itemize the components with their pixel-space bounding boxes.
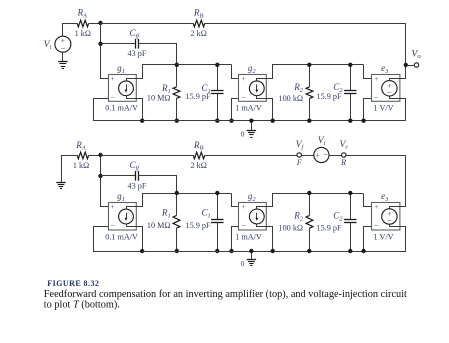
svg-text:+: + <box>374 74 378 83</box>
svg-text:15.9 pF: 15.9 pF <box>185 221 210 230</box>
svg-text:43 pF: 43 pF <box>128 49 147 58</box>
label Vt <box>318 135 326 147</box>
junction node A / Cff tap <box>98 42 102 46</box>
svg-text:2 kΩ: 2 kΩ <box>191 29 207 38</box>
wire Vr to e3 output corner (bottom) <box>347 156 406 207</box>
junction Cff tap (bottom) <box>98 174 102 178</box>
wire g1 - input to bottom rail (bottom) <box>94 227 143 252</box>
node A junction (top rail) <box>98 21 102 25</box>
label 100 kOhm (top) <box>278 94 303 103</box>
label C2 (top) <box>333 82 343 94</box>
wire node B to C1 (bottom) <box>177 193 232 195</box>
capacitor C1 (top) <box>211 65 223 121</box>
wire Vt to Vr terminal <box>329 155 342 157</box>
svg-text:−: − <box>323 150 328 159</box>
junction R2 bottom (bottom) <box>307 249 311 253</box>
label 15.9 pF C2 (top) <box>316 92 341 101</box>
junction R1 bottom (top) <box>175 119 179 123</box>
ground 0 (top circuit) <box>247 121 256 138</box>
voltage source V1 (Vi) <box>44 36 71 53</box>
wire g1 output top to node B (bottom) <box>136 194 177 207</box>
wire e3 output bottom to rail (bottom) <box>401 227 406 252</box>
controlled source g2 (top) <box>235 63 266 113</box>
label Vo <box>411 48 421 60</box>
caption line 2 <box>44 299 120 310</box>
label 0 (top) <box>241 130 245 139</box>
resistor R2 (bottom) <box>306 193 313 251</box>
wire g1 output bottom to rail (bottom) <box>136 227 143 252</box>
svg-text:−: − <box>61 44 66 53</box>
svg-text:−: − <box>387 216 392 225</box>
svg-text:15.9 pF: 15.9 pF <box>185 92 210 101</box>
junction e3 - input on rail (bottom) <box>361 249 365 253</box>
label C1 (bottom) <box>202 208 211 220</box>
svg-text:100 kΩ: 100 kΩ <box>278 223 303 232</box>
wire e3 - input to rail <box>364 99 372 121</box>
wire Vi top to RA <box>63 24 78 37</box>
label R1 (top) <box>161 83 171 95</box>
wire g2 output top to node C <box>267 65 364 79</box>
caption line 1 <box>44 289 407 300</box>
svg-text:−: − <box>374 222 379 231</box>
wire e3 output bottom to rail <box>401 99 406 121</box>
resistor RB (bottom) <box>193 152 204 159</box>
label 2 kOhm (top) <box>191 29 207 38</box>
svg-text:0: 0 <box>241 259 245 268</box>
svg-text:R: R <box>340 158 346 167</box>
label RA (bottom) <box>75 140 86 152</box>
junction g1 output on bottom rail <box>140 119 144 123</box>
junction g2 output on rail <box>271 119 275 123</box>
label 15.9 pF C1 (bottom) <box>185 221 210 230</box>
junction C2 bottom (bottom) <box>348 249 352 253</box>
junction R2 top (top) <box>307 63 311 67</box>
junction C2 top (top) <box>348 63 352 67</box>
ground below Vi <box>58 62 67 69</box>
label 10 MOhm (top) <box>147 94 171 103</box>
label Vf <box>296 139 305 151</box>
wire g1 output top to node B <box>136 65 177 79</box>
wire node B to C1 <box>177 64 232 66</box>
wire g1 - input to bottom rail <box>94 99 143 121</box>
svg-text:15.9 pF: 15.9 pF <box>316 223 341 232</box>
label 0 (bottom) <box>241 259 245 268</box>
junction g2 - input on rail (bottom) <box>229 249 233 253</box>
svg-text:1 kΩ: 1 kΩ <box>75 29 91 38</box>
label F <box>296 158 303 167</box>
wire node C down to e3 + input (bottom) <box>364 194 372 207</box>
wire e3 output top (bottom) <box>400 206 406 208</box>
svg-text:100 kΩ: 100 kΩ <box>278 94 303 103</box>
label 15.9 pF C1 (top) <box>185 92 210 101</box>
wire node C down to e3 + input <box>364 65 372 79</box>
resistor RA (top) <box>77 20 88 27</box>
wire g2 output top to node C (bottom) <box>267 194 364 207</box>
wire RB to Vf terminal <box>205 155 297 157</box>
label 100 kOhm (bottom) <box>278 223 303 232</box>
wire Vf to Vt source <box>302 155 314 157</box>
controlled source e3 (top) <box>372 63 401 113</box>
svg-text:+: + <box>110 202 114 211</box>
wire RB to output corner <box>205 24 406 66</box>
wire e3 - input to rail (bottom) <box>364 227 372 252</box>
label C1 (top) <box>202 83 211 95</box>
junction e3 - input on rail <box>361 119 365 123</box>
wire Cff right segment down to node B <box>139 44 177 65</box>
bottom rail (top circuit) <box>142 120 406 122</box>
wire node A down to g1 + input <box>101 24 109 79</box>
svg-text:10 MΩ: 10 MΩ <box>147 221 171 230</box>
label 43 pF (top) <box>128 49 147 58</box>
voltage source Vt <box>314 147 329 162</box>
label 1 kOhm (top) <box>75 29 91 38</box>
label 10 MOhm (bottom) <box>147 221 171 230</box>
capacitor C2 (top) <box>344 65 356 121</box>
bottom rail (bottom circuit) <box>142 251 406 253</box>
junction C2 bottom (top) <box>348 119 352 123</box>
label R2 (top) <box>293 82 304 94</box>
terminal Vo <box>414 63 418 67</box>
ground left (bottom) <box>56 183 65 189</box>
terminal Vr <box>342 153 346 157</box>
ground 0 (bottom circuit) <box>247 251 256 266</box>
svg-text:+: + <box>315 150 319 159</box>
svg-text:1 mA/V: 1 mA/V <box>235 104 262 113</box>
svg-text:1 mA/V: 1 mA/V <box>235 232 262 241</box>
svg-text:FIGURE 8.32: FIGURE 8.32 <box>47 279 99 288</box>
junction R1 top (bottom) <box>175 191 179 195</box>
label RB (top) <box>193 8 204 20</box>
junction R1 top (top) <box>175 63 179 67</box>
svg-text:to plot T (bottom).: to plot T (bottom). <box>44 299 120 310</box>
wire left rail to ground (bottom) <box>62 156 78 183</box>
svg-text:43 pF: 43 pF <box>128 181 147 190</box>
svg-text:15.9 pF: 15.9 pF <box>316 92 341 101</box>
wire node B down to g2 + input (bottom) <box>232 194 239 207</box>
junction R2 bottom (top) <box>307 119 311 123</box>
wire g1 output bottom to rail <box>136 99 143 121</box>
svg-text:+: + <box>374 202 378 211</box>
wire RA to node A (bottom) <box>89 155 101 157</box>
wire Vi bottom to ground <box>62 52 64 62</box>
junction ground stem (top) <box>249 119 253 123</box>
label RA (top) <box>76 8 87 20</box>
label Cff (top) <box>130 28 141 40</box>
junction C1 top (bottom) <box>215 191 219 195</box>
svg-text:−: − <box>110 93 115 102</box>
junction C2 top (bottom) <box>348 191 352 195</box>
wire RA to node A <box>89 23 101 25</box>
junction Vo node <box>404 63 408 67</box>
wire Cff left segment <box>101 43 136 45</box>
controlled source g1 (top) <box>105 63 138 113</box>
capacitor Cff (top) <box>136 39 139 49</box>
resistor R2 (top) <box>306 65 313 121</box>
svg-text:−: − <box>374 93 379 102</box>
label 43 pF (bottom) <box>128 181 147 190</box>
junction C1 top (top) <box>215 63 219 67</box>
resistor RA (bottom) <box>77 152 88 159</box>
svg-text:2 kΩ: 2 kΩ <box>191 161 207 170</box>
wire node A down to g1 + input (bottom) <box>101 156 109 207</box>
wire g2 - input to bottom rail <box>232 99 239 121</box>
wire Cff right segment down to node B (bottom) <box>139 176 177 194</box>
svg-text:+: + <box>241 74 245 83</box>
junction R1 bottom (bottom) <box>175 249 179 253</box>
wire g2 - input to rail (bottom) <box>232 227 239 252</box>
label R1 (bottom) <box>161 208 171 220</box>
svg-text:Feedforward compensation for a: Feedforward compensation for an invertin… <box>44 289 407 300</box>
wire g2 output bottom to rail (bottom) <box>267 227 273 252</box>
junction R2 top (bottom) <box>307 191 311 195</box>
svg-text:1 V/V: 1 V/V <box>373 232 393 241</box>
junction g1 output on rail (bottom) <box>140 249 144 253</box>
wire rail node A to RB (bottom) <box>101 155 194 157</box>
junction C1 bottom (bottom) <box>215 249 219 253</box>
svg-text:F: F <box>296 158 303 167</box>
node A junction (bottom rail) <box>98 153 102 157</box>
controlled source e3 (bottom) <box>372 191 401 241</box>
label R2 (bottom) <box>293 211 304 223</box>
wire e3 output top to Vo node <box>401 66 406 79</box>
controlled source g2 (bottom) <box>235 191 266 241</box>
junction C1 bottom (top) <box>215 119 219 123</box>
label RB (bottom) <box>193 140 204 152</box>
label 2 kOhm (bottom) <box>191 161 207 170</box>
junction g2 output on rail (bottom) <box>271 249 275 253</box>
label Vr <box>339 139 348 151</box>
svg-text:0.1 mA/V: 0.1 mA/V <box>105 104 138 113</box>
wire Vo node to terminal <box>406 65 414 67</box>
capacitor C1 (bottom) <box>211 193 223 251</box>
svg-text:−: − <box>387 88 392 97</box>
wire Cff left segment (bottom) <box>101 175 136 177</box>
label C2 (bottom) <box>333 211 343 223</box>
terminal Vf <box>297 153 301 157</box>
svg-text:−: − <box>110 222 115 231</box>
wire top rail node A to RB <box>101 23 194 25</box>
svg-text:+: + <box>241 202 245 211</box>
svg-text:0: 0 <box>241 130 245 139</box>
label Cff (bottom) <box>130 160 141 172</box>
svg-text:−: − <box>241 93 246 102</box>
caption figure number <box>47 279 99 288</box>
label 1 kOhm (bottom) <box>73 161 89 170</box>
capacitor C2 (bottom) <box>344 193 356 251</box>
label R node <box>340 158 346 167</box>
junction ground stem (bottom) <box>249 249 253 253</box>
svg-text:1 V/V: 1 V/V <box>373 104 393 113</box>
svg-text:10 MΩ: 10 MΩ <box>147 94 171 103</box>
controlled source g1 (bottom) <box>105 191 138 241</box>
svg-text:+: + <box>110 74 114 83</box>
svg-text:0.1 mA/V: 0.1 mA/V <box>105 232 138 241</box>
wire node B down to g2 + input <box>232 65 239 79</box>
svg-text:1 kΩ: 1 kΩ <box>73 161 89 170</box>
label 15.9 pF C2 (bottom) <box>316 223 341 232</box>
resistor R1 (bottom) <box>173 193 180 251</box>
resistor RB (top) <box>193 20 204 27</box>
capacitor Cff (bottom) <box>136 171 139 181</box>
resistor R1 (top) <box>173 65 180 121</box>
svg-text:−: − <box>241 222 246 231</box>
junction g2 - input on rail <box>229 119 233 123</box>
wire g2 output bottom to rail <box>267 99 273 121</box>
